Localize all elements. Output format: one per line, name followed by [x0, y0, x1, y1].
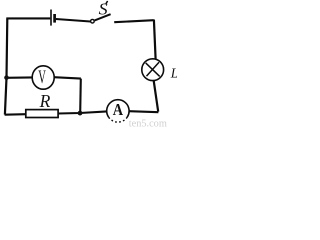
svg-text:V: V — [38, 67, 46, 88]
svg-text:A: A — [113, 100, 124, 119]
svg-text:L: L — [170, 65, 177, 80]
svg-text:ten5.com: ten5.com — [129, 119, 167, 128]
svg-text:R: R — [39, 91, 51, 111]
